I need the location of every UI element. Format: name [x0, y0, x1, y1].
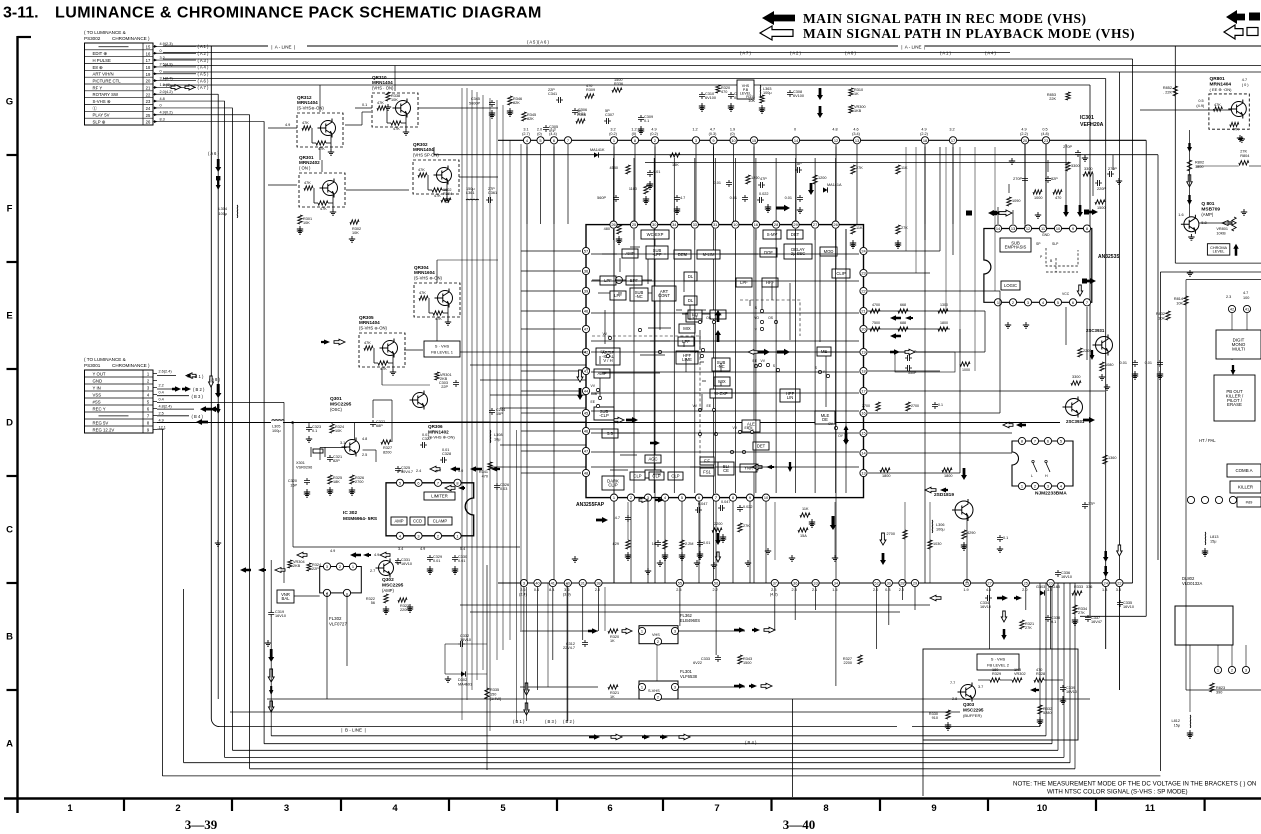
arrow A8 down — [215, 384, 222, 398]
svg-text:0.047: 0.047 — [698, 502, 708, 506]
res 11K bt — [800, 513, 810, 517]
svg-text:R308: R308 — [577, 113, 586, 117]
res 829 — [626, 540, 630, 549]
R341 res — [488, 462, 492, 470]
svg-text:MIX: MIX — [718, 379, 726, 384]
svg-text:1500: 1500 — [614, 78, 622, 82]
svg-text:37: 37 — [773, 581, 777, 586]
svg-text:MRN1404: MRN1404 — [413, 147, 434, 152]
svg-text:( TO LUMINANCE &: ( TO LUMINANCE & — [84, 357, 126, 362]
C337 cap — [1085, 615, 1091, 622]
C326 cap — [494, 483, 500, 490]
svg-text:LIMITER: LIMITER — [431, 494, 448, 499]
svg-text:PS3001: PS3001 — [84, 363, 101, 368]
svg-text:L: L — [1031, 474, 1033, 478]
svg-text:S · VHS: S · VHS — [991, 657, 1006, 662]
transistor QR312 — [297, 113, 343, 147]
bottom ruler tick — [879, 799, 881, 812]
DL802 box — [1175, 606, 1233, 645]
svg-text:(AMP): (AMP) — [382, 588, 394, 593]
transistor QR302 — [413, 160, 459, 194]
svg-text:56: 56 — [714, 581, 718, 586]
svg-text:IC 302: IC 302 — [343, 510, 357, 516]
svg-text:1: 1 — [641, 685, 643, 690]
svg-text:DET: DET — [791, 232, 800, 237]
IC301 interior mesh wires — [591, 253, 859, 255]
block FS1 — [700, 468, 714, 476]
R332 res — [1038, 705, 1042, 714]
svg-text:4.9: 4.9 — [330, 549, 335, 553]
svg-text:26: 26 — [146, 120, 151, 125]
svg-text:2700: 2700 — [355, 480, 363, 484]
DL802 wires — [1217, 645, 1219, 666]
svg-text:MAIN SIGNAL PATH IN PLAYBA: MAIN SIGNAL PATH IN PLAYBACK MODE (VHS) — [803, 26, 1135, 41]
svg-text:1.2: 1.2 — [631, 128, 636, 132]
svg-text:0.01: 0.01 — [433, 559, 440, 563]
svg-text:1K: 1K — [610, 639, 615, 643]
cap 0.01 d — [797, 195, 803, 202]
svg-text:47K: 47K — [435, 317, 442, 321]
R327 resistor — [381, 440, 391, 444]
svg-text:(VHS · ON): (VHS · ON) — [372, 86, 394, 91]
svg-text:0: 0 — [794, 128, 796, 132]
svg-text:SP: SP — [1036, 242, 1041, 246]
arrow down near VR300 — [817, 88, 823, 100]
svg-text:H: H — [1045, 474, 1048, 478]
svg-text:HT / PAL: HT / PAL — [1199, 438, 1216, 443]
svg-text:R814: R814 — [1174, 297, 1183, 301]
svg-text:29: 29 — [793, 222, 797, 227]
Q301 local wires — [354, 423, 356, 440]
svg-text:6: 6 — [698, 495, 700, 500]
svg-text:4.8: 4.8 — [986, 588, 991, 592]
C309 cap — [638, 115, 644, 122]
svg-text:GND: GND — [93, 378, 103, 383]
res 15A — [798, 528, 808, 532]
svg-text:2KB: 2KB — [293, 564, 301, 568]
svg-text:CLIP: CLIP — [608, 483, 618, 488]
svg-text:16V10: 16V10 — [1061, 575, 1072, 579]
cap 0.1 r3 — [997, 535, 1003, 542]
svg-text:VV: VV — [590, 384, 595, 388]
svg-text:48: 48 — [584, 471, 588, 476]
arrow right col — [1187, 143, 1192, 152]
cap 4.7 b — [625, 515, 631, 522]
svg-text:VSS: VSS — [93, 392, 102, 397]
svg-text:C333: C333 — [701, 657, 710, 661]
svg-text:CCD: CCD — [413, 519, 422, 524]
svg-text:2: 2 — [1231, 668, 1233, 673]
svg-text:3.1: 3.1 — [523, 128, 528, 132]
svg-text:( A 2 ): ( A 2 ) — [790, 51, 802, 56]
svg-text:FL302: FL302 — [329, 616, 342, 621]
arrows right of FL301 — [734, 683, 745, 689]
left ruler top tick — [18, 36, 32, 38]
svg-text:68P: 68P — [376, 424, 383, 428]
R335 resistor — [485, 688, 489, 699]
svg-text:1: 1 — [1217, 668, 1219, 673]
svg-text:(4.2): (4.2) — [770, 593, 779, 597]
gnd cluster bottom — [657, 560, 663, 566]
svg-text:PS3002: PS3002 — [84, 36, 101, 41]
svg-text:MOD: MOD — [824, 249, 834, 254]
svg-text:1500: 1500 — [743, 661, 751, 665]
svg-text:470: 470 — [586, 84, 592, 88]
res 4580 — [626, 165, 630, 174]
R814 resistor — [1184, 296, 1188, 305]
svg-text:3: 3 — [1245, 668, 1247, 673]
block BPF — [626, 276, 642, 285]
svg-text:100μ: 100μ — [218, 212, 227, 216]
2SC3931 lower — [1066, 399, 1083, 416]
arrow pair on B2 wire — [172, 386, 181, 391]
svg-text:42: 42 — [1230, 307, 1234, 312]
bottom ruler line — [4, 797, 1261, 799]
svg-text:MRN1404: MRN1404 — [372, 80, 393, 85]
svg-text:3300: 3300 — [1071, 164, 1079, 168]
res 27K b — [896, 225, 900, 234]
res 1000 an — [1033, 190, 1042, 194]
svg-text:15μ: 15μ — [1210, 540, 1216, 544]
block SUB-CLP — [594, 407, 614, 420]
svg-text:3: 3 — [695, 138, 697, 143]
S-VHS FB LEVEL2 box — [977, 654, 1019, 670]
arrow on B1 wire — [186, 373, 196, 378]
L812 coil — [1189, 715, 1192, 728]
svg-text:(4.9): (4.9) — [1196, 104, 1205, 108]
svg-text:28: 28 — [774, 222, 778, 227]
svg-text:6: 6 — [417, 480, 419, 485]
svg-text:3—39: 3—39 — [185, 817, 218, 832]
svg-text:( ON ): ( ON ) — [299, 166, 311, 171]
long vertical x487 — [486, 565, 488, 770]
svg-text:27K: 27K — [1025, 626, 1032, 630]
C319 cap — [268, 610, 274, 617]
L305 coil — [272, 419, 285, 422]
block AMP a — [622, 249, 638, 258]
C334 cap — [985, 595, 992, 601]
res 1500 an — [1095, 200, 1105, 204]
res 1800 b — [880, 468, 890, 472]
C333 cap — [715, 655, 721, 662]
right col wires — [1231, 313, 1233, 360]
svg-text:688: 688 — [900, 321, 906, 325]
svg-text:EE: EE — [590, 400, 595, 404]
svg-text:RF Y: RF Y — [93, 85, 103, 90]
svg-text:27: 27 — [813, 222, 817, 227]
svg-text:1800: 1800 — [940, 321, 948, 325]
svg-text:2.3: 2.3 — [771, 588, 776, 592]
svg-text:10K: 10K — [352, 231, 359, 235]
svg-text:D: D — [6, 418, 13, 429]
C303b cap — [453, 380, 459, 387]
svg-text:16V10: 16V10 — [275, 614, 286, 618]
svg-text:M-LIM: M-LIM — [703, 252, 715, 257]
top bus wires — [163, 52, 1010, 54]
svg-text:-CLP: -CLP — [599, 413, 609, 418]
svg-text:KILLER: KILLER — [1238, 485, 1253, 490]
svg-text:16V47: 16V47 — [1091, 620, 1102, 624]
svg-text:VLD0132A: VLD0132A — [1182, 581, 1202, 586]
right col pin circles — [1228, 305, 1235, 312]
bottom-right riser wires — [1039, 583, 1041, 727]
svg-text:1.3: 1.3 — [550, 128, 555, 132]
QR801 dashed box — [1209, 94, 1249, 129]
svg-text:668: 668 — [900, 303, 906, 307]
svg-text:MA141A: MA141A — [827, 183, 842, 187]
svg-text:4.9: 4.9 — [1021, 128, 1026, 132]
svg-text:0.01: 0.01 — [1120, 361, 1127, 365]
B-LINE riser with corner — [211, 46, 219, 727]
svg-text:Y IN: Y IN — [93, 385, 101, 390]
arrow fl362 — [588, 628, 598, 634]
arrow 2sc — [1083, 417, 1095, 423]
cap 0.01 an2 — [1157, 360, 1163, 367]
svg-text:56: 56 — [371, 601, 375, 605]
svg-text:4290: 4290 — [967, 531, 975, 535]
R304 resistor — [441, 198, 451, 202]
svg-text:47K: 47K — [318, 147, 325, 151]
svg-text:2.0(4.2): 2.0(4.2) — [160, 90, 174, 94]
bottom bus wires — [267, 698, 1090, 700]
block CLIP — [832, 269, 850, 278]
svg-text:LUMINANCE & CHROMINANCE PACK S: LUMINANCE & CHROMINANCE PACK SCHEMATIC D… — [55, 5, 542, 22]
svg-text:Y OUT: Y OUT — [93, 371, 106, 376]
svg-text:2μ SEC: 2μ SEC — [791, 251, 806, 256]
svg-text:4.8: 4.8 — [362, 437, 367, 441]
svg-text:( TO LUMINANCE &: ( TO LUMINANCE & — [84, 30, 126, 35]
svg-text:OV: OV — [828, 422, 834, 426]
svg-text:G303: G303 — [1036, 585, 1045, 589]
svg-text:1200: 1200 — [818, 176, 826, 180]
right vertical link wires — [939, 147, 941, 251]
svg-text:2: 2 — [339, 564, 341, 569]
svg-text:4.9: 4.9 — [651, 128, 656, 132]
svg-text:12: 12 — [1026, 226, 1030, 231]
svg-text:NJM2233BMA: NJM2233BMA — [1035, 491, 1067, 497]
svg-text:150μ: 150μ — [466, 187, 475, 191]
R301 resistor — [298, 215, 302, 224]
svg-text:2.0: 2.0 — [873, 588, 878, 592]
svg-text:47K: 47K — [1232, 128, 1239, 132]
svg-text:18K: 18K — [333, 480, 340, 484]
svg-text:W-EXP: W-EXP — [714, 391, 728, 396]
res 11K b — [851, 225, 855, 234]
svg-text:(0.2): (0.2) — [650, 132, 659, 136]
RF-Y row arrows — [171, 85, 181, 91]
svg-text:3: 3 — [523, 581, 525, 586]
bottom horizontal wires — [460, 604, 930, 606]
svg-text:7500: 7500 — [872, 321, 880, 325]
svg-text:270P: 270P — [1013, 177, 1022, 181]
svg-text:MRN2402: MRN2402 — [299, 160, 320, 165]
svg-text:3: 3 — [674, 685, 676, 690]
res 470 an — [1053, 190, 1062, 194]
block ARTIF — [596, 348, 620, 365]
svg-text:MSM6964- 5RS: MSM6964- 5RS — [343, 516, 378, 522]
svg-text:82K: 82K — [527, 117, 534, 121]
arrow left njm — [925, 487, 936, 492]
svg-text:25: 25 — [1024, 581, 1028, 586]
svg-text:( B 1 ): ( B 1 ) — [513, 719, 525, 724]
an3253 wires — [1065, 144, 1067, 207]
IC301 outline — [586, 225, 864, 498]
svg-text:BAL: BAL — [282, 596, 291, 601]
svg-text:GND: GND — [1042, 233, 1050, 237]
svg-text:16: 16 — [861, 411, 865, 416]
svg-text:8: 8 — [1086, 226, 1088, 231]
svg-text:27P: 27P — [488, 187, 495, 191]
svg-text:DL: DL — [688, 298, 694, 303]
svg-text:MIX: MIX — [683, 326, 691, 331]
svg-text:EE: EE — [744, 426, 749, 430]
arrow njm2 — [961, 468, 967, 480]
C361 capacitor — [486, 197, 493, 203]
svg-text:7.7: 7.7 — [950, 681, 955, 685]
svg-text:MA4691: MA4691 — [458, 683, 472, 687]
Q303 transistor — [961, 685, 976, 700]
svg-text:LIN: LIN — [787, 395, 794, 400]
svg-text:( B 2 ): ( B 2 ) — [193, 387, 205, 392]
left ruler tick — [7, 261, 18, 263]
block DEM — [674, 250, 691, 259]
svg-text:FS1: FS1 — [703, 470, 711, 475]
C325 cap — [395, 466, 401, 473]
L304 coil — [236, 205, 239, 218]
svg-text:4.7: 4.7 — [1242, 78, 1247, 82]
svg-text:2.2M: 2.2M — [685, 542, 693, 546]
C321 cap — [327, 455, 333, 462]
svg-text:7: 7 — [715, 495, 717, 500]
VR304 pot — [288, 560, 292, 568]
Q801 transistor — [1184, 217, 1199, 232]
svg-text:180: 180 — [992, 668, 998, 672]
svg-text:SLP ⊕: SLP ⊕ — [93, 119, 106, 124]
svg-text:4.8: 4.8 — [832, 128, 837, 132]
svg-text:0.022: 0.022 — [743, 505, 753, 509]
block HPF LIME — [676, 351, 698, 364]
svg-text:3: 3 — [1027, 300, 1029, 305]
svg-text:0.5: 0.5 — [1042, 128, 1047, 132]
R804 resistor — [1239, 161, 1249, 165]
S-VHS PB LEVEL1 box — [424, 341, 460, 357]
svg-text:13: 13 — [855, 138, 859, 143]
C308 cap — [572, 108, 578, 115]
svg-text:(0): (0) — [537, 132, 542, 136]
svg-text:(S-VHS ⊕·ON): (S-VHS ⊕·ON) — [359, 326, 388, 331]
block ALE DL — [742, 420, 760, 432]
IC302 outline — [386, 483, 474, 536]
svg-text:100μ: 100μ — [936, 528, 945, 532]
svg-text:470: 470 — [1036, 668, 1042, 672]
Q801 gnd — [1188, 234, 1194, 240]
C328 cap — [440, 457, 447, 463]
C332 cap — [458, 641, 465, 647]
res 11K a — [896, 165, 900, 174]
wire fl row1 — [520, 630, 598, 632]
svg-text:AGC: AGC — [648, 457, 657, 462]
svg-text:S-VHS ⊗: S-VHS ⊗ — [93, 99, 111, 104]
svg-text:15μ: 15μ — [1174, 724, 1180, 728]
R309 resistor — [585, 94, 594, 98]
svg-text:0: 0 — [160, 49, 162, 53]
svg-text:15: 15 — [146, 44, 151, 49]
C329 cap — [427, 555, 433, 562]
R334b resistor — [307, 563, 311, 571]
svg-text:(2.2): (2.2) — [1020, 132, 1029, 136]
svg-text:L306: L306 — [936, 523, 944, 527]
C331 cap — [395, 558, 401, 565]
connector table PS3002 — [85, 43, 154, 125]
svg-text:EE: EE — [706, 404, 711, 408]
svg-text:(OSC): (OSC) — [330, 407, 342, 412]
svg-text:6: 6 — [607, 803, 612, 814]
svg-text:( A 8 ): ( A 8 ) — [845, 51, 857, 56]
R320 resistor — [716, 85, 720, 93]
svg-text:15: 15 — [752, 138, 756, 143]
svg-text:3: 3 — [326, 564, 328, 569]
svg-text:11: 11 — [1145, 803, 1156, 814]
svg-text:2: 2 — [1012, 300, 1014, 305]
svg-text:MAIN SIGNAL PATH IN REC M: MAIN SIGNAL PATH IN REC MODE (VHS) — [803, 11, 1087, 26]
svg-text:13: 13 — [861, 471, 865, 476]
bus line y146 — [434, 154, 1158, 156]
svg-text:4: 4 — [392, 803, 398, 814]
svg-text:( B 4 ): ( B 4 ) — [192, 414, 204, 419]
C323 cap — [306, 425, 312, 432]
bottom ruler tick — [662, 799, 664, 812]
svg-text:( A 4 ): ( A 4 ) — [985, 51, 997, 56]
svg-text:25: 25 — [146, 113, 151, 118]
svg-text:22P: 22P — [312, 567, 319, 571]
svg-text:ART V/H/N: ART V/H/N — [93, 72, 114, 77]
svg-text:E: E — [6, 311, 12, 322]
svg-text:R335: R335 — [490, 688, 499, 692]
svg-text:4.7: 4.7 — [680, 196, 685, 200]
block SUB-LPF — [646, 246, 668, 259]
svg-text:2.2: 2.2 — [712, 588, 717, 592]
svg-text:3300: 3300 — [1084, 167, 1092, 171]
svg-text:16V10: 16V10 — [460, 638, 471, 642]
svg-text:0.1: 0.1 — [1051, 620, 1056, 624]
NJM switch symbols — [1033, 463, 1037, 472]
svg-text:28: 28 — [900, 581, 904, 586]
svg-text:S · VHS: S · VHS — [435, 344, 450, 349]
C330 cap — [452, 555, 458, 562]
svg-text:1.9: 1.9 — [963, 588, 968, 592]
svg-text:100μ: 100μ — [763, 91, 772, 95]
QR306 wire — [430, 421, 490, 423]
svg-text:2: 2 — [1034, 484, 1036, 489]
svg-text:1: 1 — [1021, 484, 1023, 489]
svg-text:S-VHS: S-VHS — [648, 689, 660, 693]
svg-text:PLAY 5V: PLAY 5V — [93, 113, 110, 118]
R311 resistor — [760, 95, 764, 103]
block YNR — [740, 464, 757, 472]
svg-text:1030: 1030 — [933, 542, 941, 546]
block CLP row — [630, 472, 645, 480]
block WC-EXP — [641, 230, 669, 239]
svg-text:15K: 15K — [672, 163, 679, 167]
cap 4.7 mid — [674, 195, 680, 202]
svg-text:2.5: 2.5 — [676, 588, 681, 592]
svg-text:REG 5V: REG 5V — [93, 420, 109, 425]
svg-text:YO: YO — [754, 316, 759, 320]
svg-text:( A 2 ): ( A 2 ) — [198, 51, 210, 56]
svg-text:R328: R328 — [1036, 672, 1045, 676]
svg-text:. 22K: . 22K — [1163, 91, 1172, 95]
svg-text:0: 0 — [160, 69, 162, 73]
